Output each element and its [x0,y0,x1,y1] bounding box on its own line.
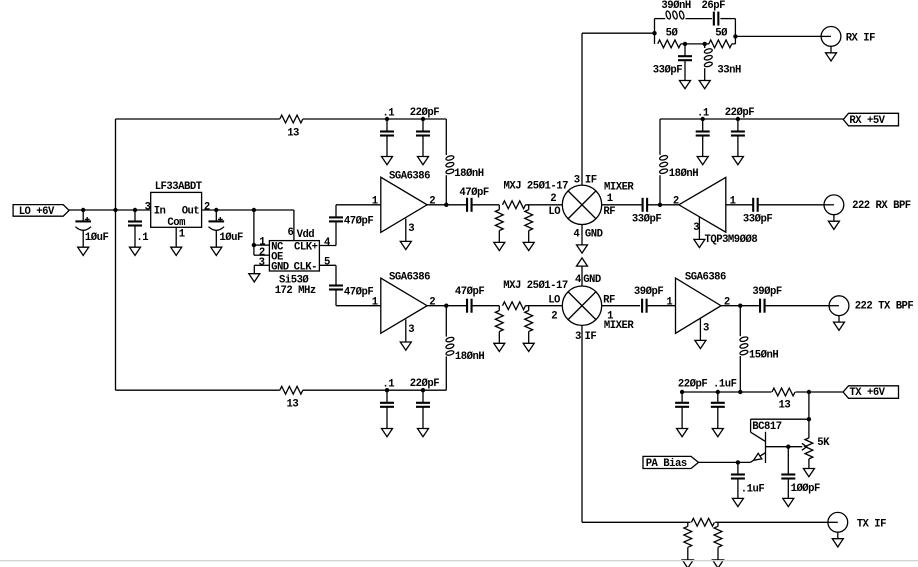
svg-text:47ØpF: 47ØpF [455,286,484,298]
svg-text:22ØpF .1uF: 22ØpF .1uF [678,378,737,390]
svg-text:3: 3 [408,223,414,235]
svg-text:13: 13 [287,398,299,410]
svg-text:SGA6386: SGA6386 [389,171,430,183]
svg-text:5Ø: 5Ø [715,27,728,39]
svg-text:LO: LO [548,206,560,218]
svg-text:6: 6 [288,227,294,239]
svg-text:Vdd: Vdd [297,229,315,241]
svg-text:22ØpF: 22ØpF [725,107,754,119]
svg-text:5K: 5K [817,437,830,449]
svg-text:1ØuF: 1ØuF [219,232,243,244]
svg-text:In: In [154,206,166,218]
svg-text:1: 1 [607,193,613,205]
svg-text:26pF: 26pF [702,0,726,12]
svg-text:GND: GND [271,261,289,273]
svg-text:3: 3 [575,331,581,343]
svg-text:47ØpF: 47ØpF [459,187,488,199]
svg-text:3: 3 [259,257,265,269]
svg-text:1ØuF: 1ØuF [85,232,109,244]
svg-text:1: 1 [666,297,672,309]
svg-text:IF: IF [585,331,597,343]
svg-text:2: 2 [724,297,730,309]
svg-text:47ØpF: 47ØpF [344,287,373,299]
svg-text:13: 13 [287,127,299,139]
svg-text:3: 3 [145,201,151,213]
svg-text:1: 1 [372,196,378,208]
svg-text:RX IF: RX IF [846,33,875,45]
svg-text:3: 3 [703,323,709,335]
svg-text:CLK+: CLK+ [294,242,318,254]
svg-text:33ØpF: 33ØpF [632,213,661,225]
svg-text:18ØnH: 18ØnH [454,168,483,180]
svg-text:MXJ 25Ø1-17: MXJ 25Ø1-17 [503,280,568,292]
svg-text:.1: .1 [136,232,148,244]
svg-text:.1: .1 [382,379,394,391]
svg-text:2: 2 [550,193,556,205]
svg-text:SGA6386: SGA6386 [389,272,430,284]
svg-text:CLK-: CLK- [294,261,317,273]
svg-text:18ØnH: 18ØnH [669,168,698,180]
svg-text:222 TX BPF: 222 TX BPF [855,301,914,313]
svg-text:1ØØpF: 1ØØpF [791,483,820,495]
svg-text:MIXER: MIXER [604,181,634,193]
svg-text:LF33ABDT: LF33ABDT [155,181,203,193]
svg-text:SGA6386: SGA6386 [685,272,726,284]
svg-text:2: 2 [429,196,435,208]
svg-text:2: 2 [551,310,557,322]
svg-text:BC817: BC817 [752,421,781,433]
svg-text:RF: RF [603,206,615,218]
svg-text:RF: RF [603,295,615,307]
svg-text:3: 3 [574,175,580,187]
svg-text:47ØpF: 47ØpF [344,215,373,227]
svg-text:TQP3M9ØØ8: TQP3M9ØØ8 [705,234,758,246]
svg-text:Com: Com [167,217,185,229]
svg-text:RX +5V: RX +5V [849,115,885,127]
svg-text:172 MHz: 172 MHz [275,285,316,297]
svg-text:MIXER: MIXER [604,320,634,332]
svg-text:Out: Out [182,206,200,218]
svg-text:2: 2 [429,297,435,309]
svg-text:.1: .1 [697,107,709,119]
svg-text:GND: GND [583,274,601,286]
svg-text:PA Bias: PA Bias [646,458,687,470]
svg-text:.1uF: .1uF [741,483,765,495]
svg-text:33ØpF: 33ØpF [653,65,682,77]
svg-text:3: 3 [693,222,699,234]
svg-text:33ØpF: 33ØpF [743,213,772,225]
svg-text:1: 1 [179,229,185,241]
svg-text:39ØpF: 39ØpF [752,286,781,298]
svg-text:33nH: 33nH [717,65,741,77]
svg-text:.1: .1 [382,107,394,119]
svg-text:13: 13 [779,399,791,411]
svg-text:15ØnH: 15ØnH [749,350,778,362]
svg-text:MXJ 25Ø1-17: MXJ 25Ø1-17 [504,180,569,192]
svg-text:39ØnH: 39ØnH [661,0,690,12]
svg-text:1: 1 [372,297,378,309]
svg-text:IF: IF [585,175,597,187]
svg-text:1: 1 [730,196,736,208]
svg-text:TX +6V: TX +6V [849,387,885,399]
svg-text:5: 5 [324,257,330,269]
svg-text:18ØnH: 18ØnH [455,351,484,363]
svg-text:GND: GND [585,228,603,240]
svg-text:22ØpF: 22ØpF [410,107,439,119]
svg-text:222 RX BPF: 222 RX BPF [852,200,911,212]
svg-text:LO +6V: LO +6V [19,206,55,218]
svg-text:3: 3 [408,324,414,336]
svg-text:2: 2 [673,196,679,208]
svg-text:22ØpF: 22ØpF [410,378,439,390]
svg-text:5Ø: 5Ø [666,27,679,39]
svg-text:TX IF: TX IF [857,519,886,531]
svg-text:2: 2 [204,201,210,213]
svg-text:39ØpF: 39ØpF [634,286,663,298]
svg-text:LO: LO [548,295,560,307]
